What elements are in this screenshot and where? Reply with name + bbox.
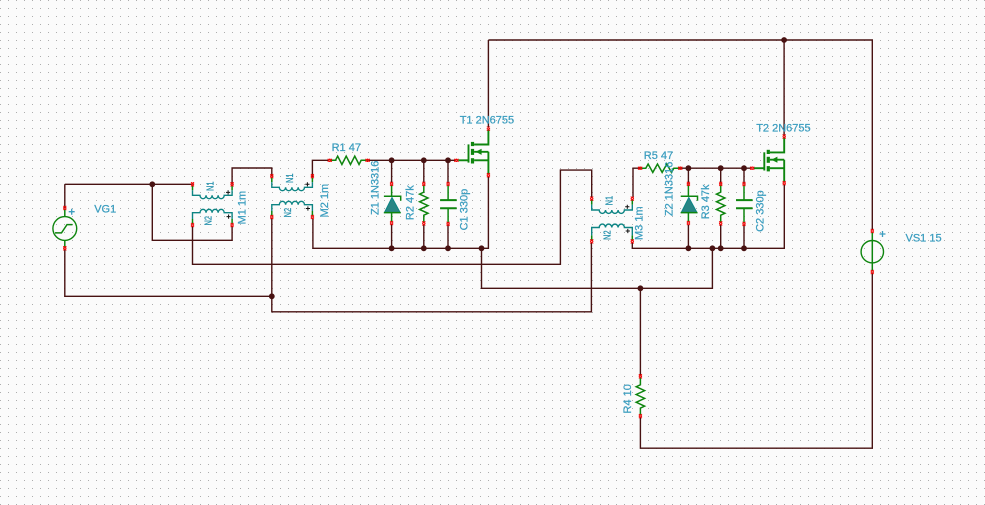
transformer M1 winding N2 <box>193 209 233 223</box>
junction R3 top <box>718 165 724 171</box>
pin VG1 minus <box>63 246 66 250</box>
junction C1 top / T1 gate <box>445 157 451 163</box>
phase dot M3 N1 <box>625 205 629 209</box>
resistor R4 <box>636 378 644 415</box>
pin VG1 plus <box>63 206 66 210</box>
junction Z2 bottom <box>686 245 692 251</box>
junction C1 bottom <box>445 245 451 251</box>
pin T2 source <box>783 181 786 185</box>
wire source rail 2: M3 N2 right to T2 source <box>632 185 784 249</box>
svg-text:Z2 1N3316: Z2 1N3316 <box>664 162 676 216</box>
wire R4 node down to R4 <box>639 288 641 375</box>
pin C1 top <box>447 182 450 186</box>
pin T1 gate <box>454 159 458 162</box>
pin C2 bottom <box>742 222 745 226</box>
pin C1 bottom <box>447 222 450 226</box>
phase dot M2 N2 <box>306 206 310 210</box>
svg-text:C2 330p: C2 330p <box>755 190 767 232</box>
pin M3 N1 left <box>590 197 593 201</box>
svg-text:Z1 1N3316: Z1 1N3316 <box>370 161 382 215</box>
plus sign VS1 <box>880 231 886 237</box>
svg-text:R2 47k: R2 47k <box>405 185 417 220</box>
junction source rail 1 branch <box>479 245 485 251</box>
pin Z1 anode <box>390 221 393 225</box>
wire M3 N1 right to R5 left <box>633 168 640 198</box>
junction Z2 top <box>686 165 692 171</box>
resistor R3 <box>717 185 725 222</box>
phase dot M2 N1 <box>305 182 309 186</box>
junction C2 top / T2 gate <box>741 165 747 171</box>
pin M2 N2 left <box>270 215 273 219</box>
junction T2 drain top rail <box>781 37 787 43</box>
wire C1 bottom drop <box>447 225 449 248</box>
svg-text:R5 47: R5 47 <box>644 150 673 162</box>
pin R2 bottom <box>422 221 425 225</box>
pin R1 right <box>366 159 370 162</box>
pin M2 N2 right <box>311 215 314 219</box>
pin Z2 anode <box>687 221 690 225</box>
pin VS1 minus <box>871 270 874 274</box>
zener diode Z2 <box>681 185 698 223</box>
plus sign VG1 <box>69 209 75 215</box>
wire R3 bottom drop <box>720 225 722 248</box>
pin R4 top <box>639 374 642 378</box>
wire M1 N2 left to M3 N1 left <box>193 170 592 264</box>
pin M1 N2 left <box>191 223 194 227</box>
pin M2 N1 right <box>311 174 314 178</box>
wire C2 bottom drop <box>743 226 745 249</box>
node B junction <box>269 293 275 299</box>
svg-text:R1 47: R1 47 <box>332 142 361 154</box>
wire source rail 1 to R4 node <box>482 248 713 288</box>
phase dot M1 N2 <box>227 215 231 219</box>
pin T2 drain <box>783 135 786 139</box>
wire C2 top drop <box>743 168 745 184</box>
pin T2 gate <box>750 167 754 170</box>
svg-text:M1 1m: M1 1m <box>236 191 248 225</box>
wire top rail: T1 drain to VS1 plus <box>488 40 872 230</box>
pin R1 left <box>328 159 332 162</box>
pin R3 bottom <box>719 221 722 225</box>
pin R3 top <box>719 182 722 186</box>
pin VS1 plus <box>871 229 874 233</box>
wire T1 drain up <box>487 40 489 127</box>
pin M3 N1 right <box>631 197 634 201</box>
wire R2 bottom drop <box>423 225 425 249</box>
phase dot M3 N2 <box>626 229 630 233</box>
wire Z1 bottom drop <box>391 225 393 249</box>
wire Z2 bottom drop <box>687 225 689 248</box>
transformer M3 winding N1 <box>592 200 633 213</box>
pin M1 N1 right <box>231 182 234 186</box>
junction R2 top <box>421 157 427 163</box>
wire T2 drain up <box>783 40 785 135</box>
pin R5 right <box>678 167 682 170</box>
pin R5 left <box>638 167 642 170</box>
svg-text:N1: N1 <box>604 196 616 206</box>
junction R4 node <box>638 285 644 291</box>
junction C2 bottom <box>741 245 747 251</box>
pin M3 N2 right <box>631 239 634 243</box>
transformer M3 winding N2 <box>592 224 633 240</box>
wire gate rail 1: R1 right to T1 gate <box>368 159 455 161</box>
svg-text:N2: N2 <box>282 208 294 218</box>
resistor R2 <box>420 185 428 222</box>
pin R4 bottom <box>639 414 642 418</box>
wire node A down to M1 N2 right <box>152 184 232 240</box>
wire source rail 1: M2 N2 right to T1 source <box>313 177 489 249</box>
capacitor C1 <box>440 185 457 223</box>
wire R3 top drop <box>720 168 722 184</box>
svg-text:VS1 15: VS1 15 <box>906 233 942 245</box>
wire Z1 top drop <box>391 160 393 183</box>
transformer M2 winding N1 <box>272 178 313 191</box>
pin C2 top <box>742 182 745 186</box>
wire M2 N1 right to R1 left <box>312 160 328 177</box>
pin R2 top <box>422 182 425 186</box>
svg-text:T2 2N6755: T2 2N6755 <box>756 122 810 134</box>
wire VG1 minus to node B <box>65 250 272 297</box>
svg-text:R4 10: R4 10 <box>622 384 634 413</box>
voltage source VS1 <box>861 233 883 272</box>
junction Z1 top <box>389 157 395 163</box>
voltage generator VG1 <box>53 210 77 247</box>
svg-text:M2 1m: M2 1m <box>319 184 331 218</box>
wire M2 N2 left to M3 N2 left <box>272 219 592 312</box>
svg-text:M3 1m: M3 1m <box>634 206 646 240</box>
pin Z1 cathode <box>390 182 393 186</box>
transistor T1 (NMOS 2N6755) <box>458 130 488 174</box>
svg-text:N1: N1 <box>284 173 296 183</box>
resistor R1 <box>330 156 368 164</box>
junction branch bottom rail 2 <box>710 245 716 251</box>
wire VG1 plus to node A <box>64 184 66 208</box>
wire R4 to VS1 minus <box>640 273 872 449</box>
svg-text:T1 2N6755: T1 2N6755 <box>460 115 514 127</box>
zener diode Z1 <box>384 185 401 223</box>
svg-text:N2: N2 <box>203 216 215 226</box>
transformer M2 winding N2 <box>272 201 313 215</box>
wire Z2 top drop <box>687 168 689 184</box>
pin M1 N2 right <box>231 223 234 227</box>
wire M1 N1 right to M2 N1 left <box>232 168 272 184</box>
pin Z2 cathode <box>687 182 690 186</box>
wire C1 top drop <box>447 160 449 183</box>
svg-text:N1: N1 <box>205 181 217 191</box>
node A junction <box>149 181 155 187</box>
junction R2 bottom <box>421 245 427 251</box>
svg-text:R3 47k: R3 47k <box>700 184 712 219</box>
wire node A to M1 N1 left <box>65 183 193 185</box>
transformer M1 winding N1 <box>193 186 233 199</box>
svg-text:VG1: VG1 <box>94 203 116 215</box>
transistor T2 (NMOS 2N6755) <box>754 138 784 182</box>
pin M3 N2 left <box>590 239 593 243</box>
resistor R5 <box>640 164 680 172</box>
svg-text:C1 330p: C1 330p <box>459 189 471 231</box>
capacitor C2 <box>736 185 753 223</box>
svg-text:N2: N2 <box>602 230 614 240</box>
wire gate rail 2: R5 right to T2 gate <box>680 167 750 169</box>
junction R3 bottom <box>718 245 724 251</box>
pin T1 drain <box>487 127 490 131</box>
wire R2 top drop <box>423 160 425 183</box>
phase dot M1 N1 <box>226 190 230 194</box>
pin M1 N1 left <box>191 182 194 186</box>
pin M2 N1 left <box>270 174 273 178</box>
pin T1 source <box>487 173 490 177</box>
junction Z1 bottom <box>389 245 395 251</box>
